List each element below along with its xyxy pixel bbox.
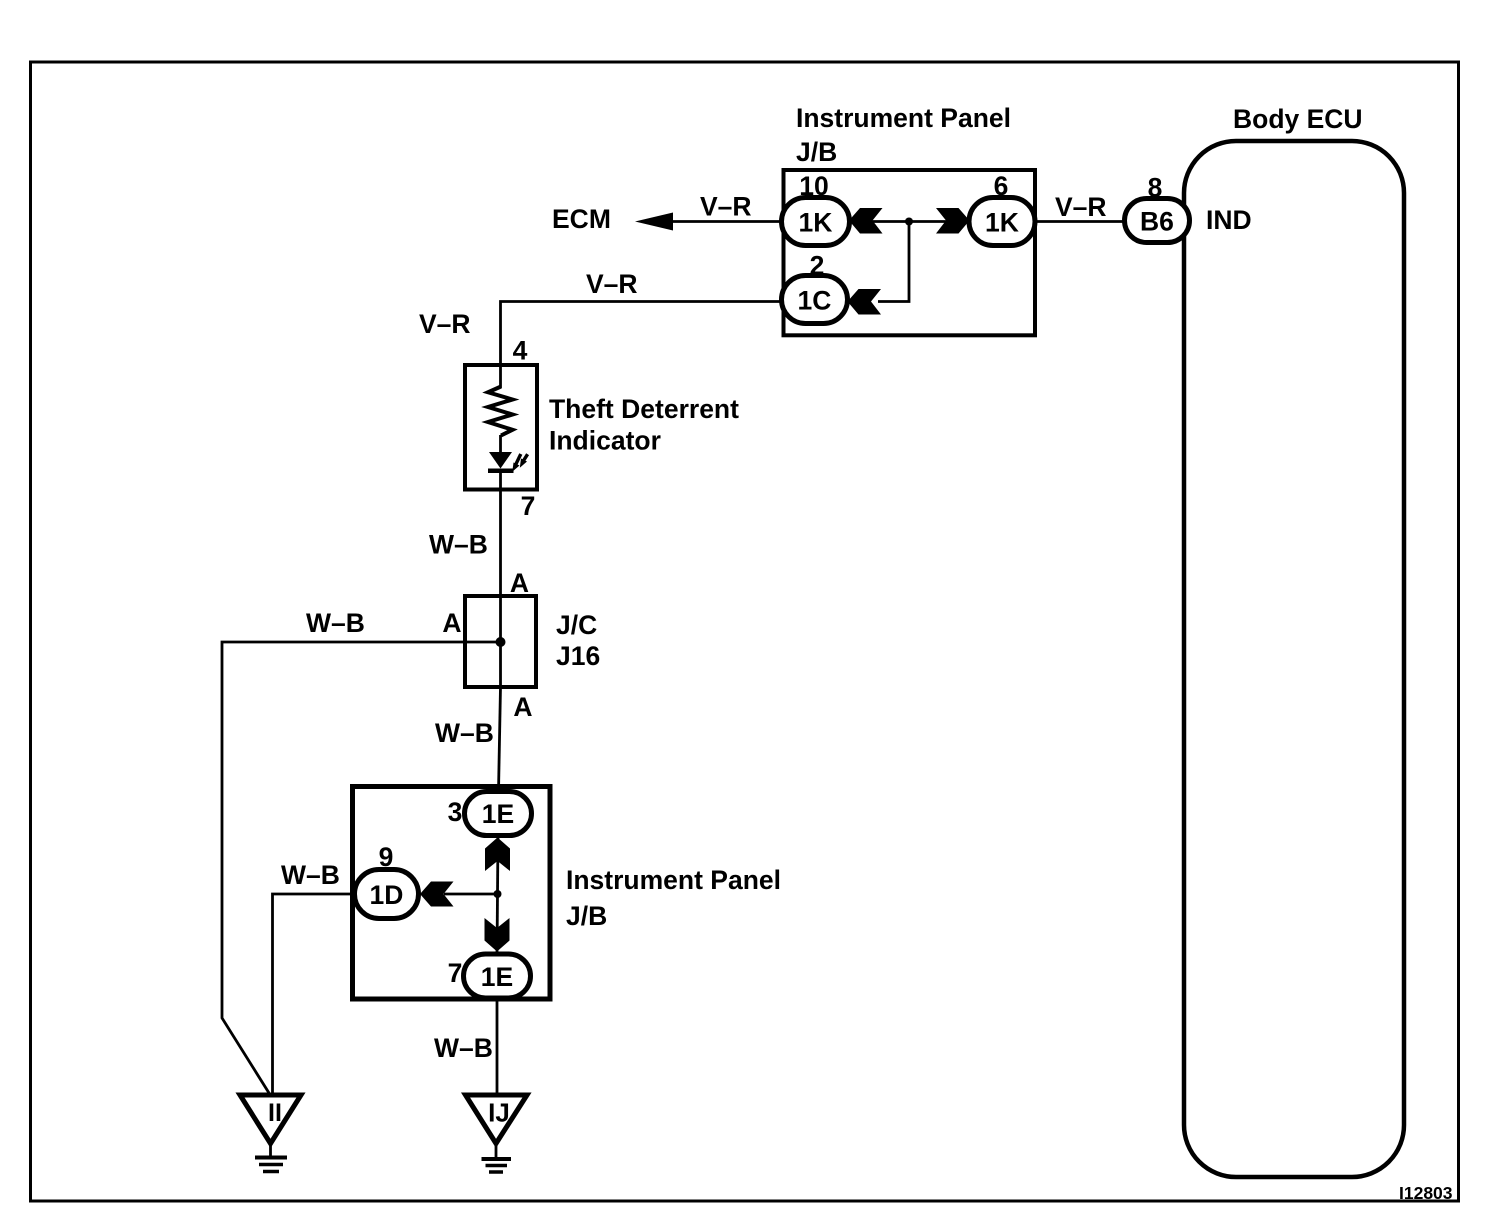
svg-text:1C: 1C xyxy=(798,286,832,316)
connector 1E pin 7 xyxy=(448,954,531,998)
LED light arrow 2 xyxy=(520,454,528,468)
wire 1E(7) to ground IJ xyxy=(496,998,499,1094)
svg-text:3: 3 xyxy=(448,797,463,827)
svg-text:Body ECU: Body ECU xyxy=(1233,104,1363,134)
wire 1K6 to B6 xyxy=(1035,220,1125,223)
svg-text:V–R: V–R xyxy=(700,192,752,222)
connector B6 pin 8 xyxy=(1125,173,1190,243)
wire 1E(3) to junction xyxy=(496,835,499,894)
label Theft Deterrent Indicator xyxy=(549,394,739,456)
svg-text:A: A xyxy=(442,608,461,638)
wire through J/C xyxy=(499,596,502,687)
svg-text:ECM: ECM xyxy=(552,204,611,234)
label Instrument Panel J/B (top) xyxy=(796,103,1011,167)
LED light arrow 1 xyxy=(512,454,521,472)
connector 1K pin 10 xyxy=(782,171,850,246)
wire 1C to theft indicator (corner) xyxy=(501,302,782,366)
LED cathode bar xyxy=(488,469,514,474)
connector 1E pin 3 xyxy=(448,792,532,836)
svg-text:J/C: J/C xyxy=(556,610,597,640)
arrow into 1C pin 2 xyxy=(848,289,882,315)
node junction dot xyxy=(905,218,913,226)
svg-text:I12803: I12803 xyxy=(1399,1183,1453,1203)
wire ECM line xyxy=(671,220,782,223)
svg-text:V–R: V–R xyxy=(419,309,471,339)
wire junction to 1D xyxy=(444,893,498,896)
connector 1D pin 9 xyxy=(355,842,419,919)
svg-text:V–R: V–R xyxy=(1055,192,1107,222)
svg-text:7: 7 xyxy=(448,958,463,988)
wire into resistor xyxy=(499,365,502,388)
svg-text:Instrument Panel: Instrument Panel xyxy=(796,103,1011,133)
svg-text:Theft Deterrent: Theft Deterrent xyxy=(549,394,739,424)
svg-text:IJ: IJ xyxy=(488,1098,510,1128)
connector 1K pin 6 xyxy=(969,171,1035,246)
wire 1D to ground II xyxy=(273,894,355,1094)
theft deterrent indicator box xyxy=(465,365,537,490)
wire resistor to LED xyxy=(499,435,502,452)
svg-text:1E: 1E xyxy=(481,962,513,992)
svg-text:1K: 1K xyxy=(799,208,833,238)
svg-text:W–B: W–B xyxy=(281,860,340,890)
arrow up into 1E pin 3 xyxy=(485,838,510,872)
svg-text:J/B: J/B xyxy=(566,901,607,931)
ground II xyxy=(240,1095,301,1172)
svg-text:B6: B6 xyxy=(1140,207,1174,237)
arrow into 1K pin 6 xyxy=(936,208,970,234)
svg-text:1D: 1D xyxy=(370,880,404,910)
junction connector J/C J16 box xyxy=(465,596,536,687)
arrow to ECM xyxy=(635,213,673,231)
svg-text:J/B: J/B xyxy=(796,137,837,167)
svg-text:A: A xyxy=(510,568,529,598)
node junction dot (lower box) xyxy=(494,890,502,898)
svg-text:1K: 1K xyxy=(985,208,1019,238)
wire junction down to 1C branch xyxy=(878,222,909,302)
wire between 1K pins xyxy=(850,220,970,223)
arrow into 1D pin 9 xyxy=(420,882,454,907)
svg-text:W–B: W–B xyxy=(435,718,494,748)
svg-text:7: 7 xyxy=(521,491,536,521)
wire junction down to 1E(7) xyxy=(496,894,499,954)
arrow into 1K pin 10 xyxy=(849,208,883,234)
body ECU outline xyxy=(1184,141,1404,1177)
svg-text:W–B: W–B xyxy=(306,608,365,638)
svg-text:W–B: W–B xyxy=(434,1033,493,1063)
connector 1C pin 2 xyxy=(782,251,848,324)
resistor (zigzag) xyxy=(488,387,513,436)
label J/C J16 xyxy=(556,610,600,671)
svg-text:A: A xyxy=(513,692,532,722)
LED triangle xyxy=(489,452,512,469)
svg-text:IND: IND xyxy=(1206,205,1252,235)
node junction dot in J/C xyxy=(496,637,506,647)
svg-text:W–B: W–B xyxy=(429,530,488,560)
instrument panel J/B box (top) xyxy=(784,170,1036,335)
svg-text:4: 4 xyxy=(513,336,528,366)
arrow down into 1E pin 7 xyxy=(485,918,510,952)
instrument panel J/B box (lower) xyxy=(353,787,551,1000)
label Instrument Panel J/B (lower) xyxy=(566,865,781,931)
wire J/C left branch to ground II xyxy=(222,642,501,1093)
ground IJ xyxy=(466,1095,528,1172)
svg-text:Indicator: Indicator xyxy=(549,426,661,456)
svg-text:V–R: V–R xyxy=(586,269,638,299)
wire J/C down to instrument panel J/B lower box xyxy=(499,687,501,792)
svg-text:1E: 1E xyxy=(482,799,514,829)
svg-text:J16: J16 xyxy=(556,641,600,671)
svg-text:Instrument Panel: Instrument Panel xyxy=(566,865,781,895)
svg-text:II: II xyxy=(268,1099,282,1127)
wire LED to J/C xyxy=(499,473,502,596)
